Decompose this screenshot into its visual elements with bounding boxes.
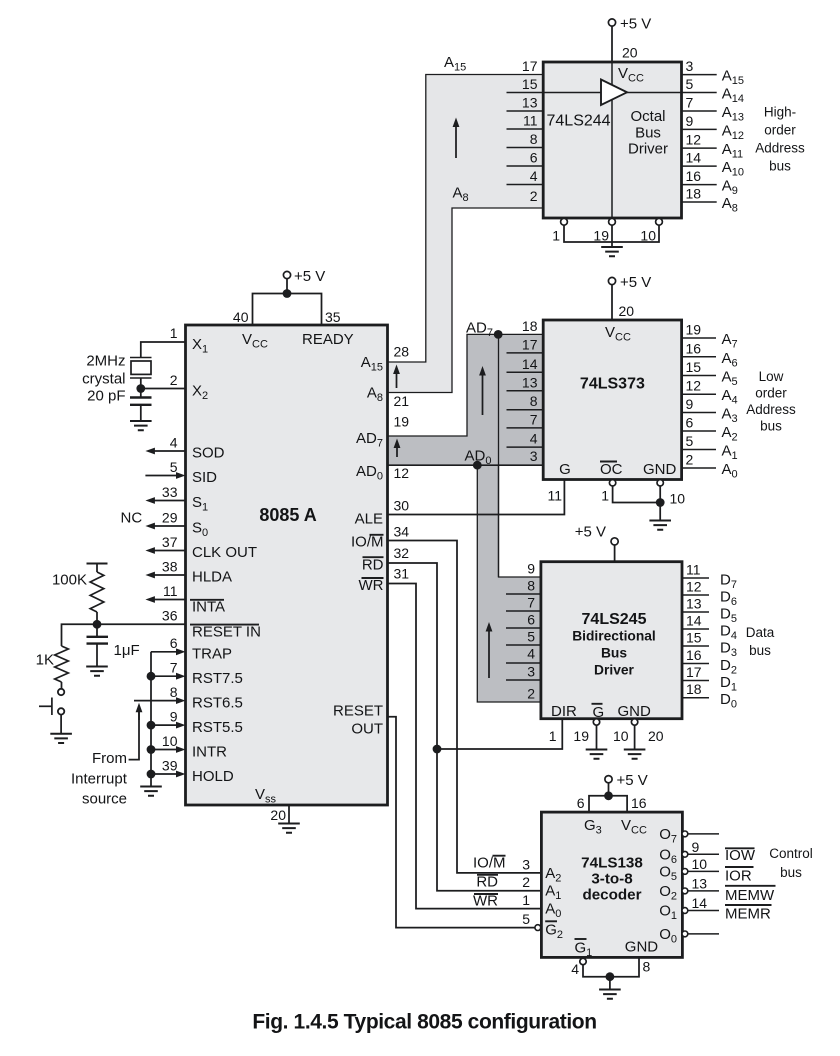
pin A15 (28) of 8085 (361, 344, 410, 374)
svg-text:8: 8 (643, 959, 651, 975)
node OC/GND junction dot (656, 498, 665, 507)
pin INTR (10) of 8085 (151, 733, 227, 761)
svg-text:2MHz: 2MHz (86, 353, 125, 370)
node RESET IN junction dot (93, 620, 102, 629)
svg-text:6: 6 (686, 415, 694, 431)
caption Fig. 1.4.5 Typical 8085 configuration (252, 1011, 596, 1034)
pin VSS (20) of 8085 with ground (255, 786, 289, 824)
svg-text:WR: WR (473, 893, 498, 910)
svg-text:10: 10 (162, 733, 178, 749)
pin S1 (33) of 8085 (145, 484, 208, 514)
svg-text:10: 10 (670, 491, 686, 507)
pin G (19) of 74LS245 to ground (573, 704, 604, 750)
ground below 74LS373 (649, 521, 671, 530)
svg-text:9: 9 (692, 839, 700, 855)
power +5 V terminal for 8085 VCC/READY (253, 268, 326, 325)
svg-text:3: 3 (530, 448, 538, 464)
svg-text:order: order (755, 386, 787, 401)
svg-text:4: 4 (527, 646, 535, 662)
ground below interrupt rail (140, 787, 162, 796)
ground below 74LS244 (601, 247, 623, 256)
label NC (121, 510, 143, 527)
svg-text:74LS244: 74LS244 (547, 113, 611, 130)
svg-text:SID: SID (192, 469, 217, 486)
svg-text:RD: RD (476, 873, 498, 890)
IC U4 74LS245 bidirectional bus driver body (541, 562, 682, 719)
svg-text:From: From (92, 750, 127, 767)
svg-text:9: 9 (686, 396, 694, 412)
svg-text:RST7.5: RST7.5 (192, 670, 243, 687)
pin WR (31) of 8085 (359, 566, 410, 595)
svg-text:11: 11 (547, 488, 562, 504)
svg-text:Bidirectional: Bidirectional (572, 629, 656, 644)
svg-text:19: 19 (686, 322, 702, 338)
svg-text:OC: OC (600, 461, 623, 478)
label Low order Address bus (746, 369, 796, 434)
label Control bus (769, 846, 813, 880)
svg-text:6: 6 (170, 635, 178, 651)
label 1K (36, 652, 54, 669)
pins right of 74LS245 (11..18) to data bus (682, 562, 737, 711)
wire RD branch to 74LS245 DIR pin 1 (437, 719, 562, 749)
pin A1 (2) of 74LS138 with RD label (476, 873, 561, 902)
svg-text:RST5.5: RST5.5 (192, 719, 243, 736)
svg-text:16: 16 (686, 340, 702, 356)
label 1uF (114, 642, 140, 659)
pins 1,19,10 of 74LS244 to ground (552, 218, 662, 247)
svg-text:74LS373: 74LS373 (580, 376, 645, 393)
resistor 1K (55, 624, 97, 688)
svg-text:7: 7 (527, 595, 535, 611)
pin GND (10) of 74LS373 to ground (643, 461, 685, 521)
wire from-interrupt-source arrow into RST6.5 (129, 703, 143, 760)
svg-text:order: order (764, 123, 796, 138)
svg-text:1K: 1K (36, 652, 54, 669)
pin G1 (4) of 74LS138 (571, 939, 639, 977)
svg-text:17: 17 (522, 58, 538, 74)
power +5 V terminal for 74LS138 (G3 pin6, VCC pin16) (577, 772, 648, 812)
ground below 74LS245 pin 10 (624, 750, 646, 759)
label VCC inside 74LS138 (621, 817, 647, 837)
label IOR control signal (725, 867, 754, 885)
svg-text:36: 36 (162, 608, 178, 624)
ground below push-button (50, 734, 72, 743)
svg-text:RESET: RESET (333, 703, 383, 720)
svg-text:8: 8 (527, 578, 535, 594)
svg-text:34: 34 (394, 524, 410, 540)
ground below 74LS138 (599, 990, 621, 999)
svg-text:bus: bus (760, 419, 782, 434)
svg-text:2: 2 (522, 874, 530, 890)
push-button switch to ground (39, 689, 64, 734)
svg-text:IO/M: IO/M (473, 854, 506, 871)
svg-text:33: 33 (162, 484, 178, 500)
bus A8-A15 band pin stub lines into 74LS244 (507, 93, 544, 185)
node crystal/X2 junction dot (136, 384, 145, 393)
svg-text:IOR: IOR (725, 868, 752, 885)
label VCC inside 8085 (242, 331, 268, 351)
svg-text:18: 18 (686, 681, 702, 697)
svg-text:14: 14 (686, 613, 702, 629)
svg-text:19: 19 (593, 228, 609, 244)
pin TRAP (6) of 8085 (151, 635, 232, 663)
svg-text:12: 12 (394, 465, 410, 481)
svg-text:4: 4 (530, 168, 538, 184)
svg-text:6: 6 (530, 150, 538, 166)
wire IO/M from 8085 pin 34 to 74LS138 A2 (388, 541, 542, 873)
svg-text:Interrupt: Interrupt (71, 771, 128, 788)
svg-text:20: 20 (619, 303, 635, 319)
ground below 8085 VSS (278, 824, 300, 833)
node rail dot at INTR (147, 745, 156, 754)
svg-text:NC: NC (121, 510, 143, 527)
capacitor 1uF on RESET IN (87, 624, 109, 666)
svg-text:5: 5 (686, 433, 694, 449)
svg-text:READY: READY (302, 331, 354, 348)
capacitor 20 pF (130, 389, 152, 422)
wire RD from 8085 pin 32 to 74LS138 A1 (388, 563, 542, 891)
svg-text:RST6.5: RST6.5 (192, 695, 243, 712)
svg-text:17: 17 (522, 336, 538, 352)
svg-text:8085 A: 8085 A (259, 505, 316, 525)
pin 35 label (8085 READY) (325, 309, 341, 325)
label Data bus (746, 625, 775, 658)
pin AD0 (12) of 8085 (356, 463, 409, 483)
svg-text:5: 5 (527, 629, 535, 645)
node rail dot at HOLD (147, 770, 156, 779)
buffer triangle symbol inside 74LS244 (601, 80, 627, 106)
svg-text:4: 4 (571, 961, 579, 977)
label A15 at band top (444, 54, 466, 74)
svg-text:15: 15 (686, 630, 702, 646)
svg-text:ALE: ALE (355, 510, 383, 527)
bus direction arrow in A8-A15 band (top) (453, 118, 460, 159)
node AD7 junction dot (494, 330, 503, 339)
pin X1 (1) of 8085 with crystal wire (141, 325, 208, 357)
svg-text:7: 7 (170, 660, 178, 676)
ground below 74LS245 pin 19 (586, 750, 608, 759)
svg-text:38: 38 (162, 559, 178, 575)
svg-text:5: 5 (522, 911, 530, 927)
svg-text:12: 12 (686, 132, 702, 148)
svg-text:20 pF: 20 pF (87, 388, 125, 405)
svg-text:3: 3 (527, 664, 535, 680)
svg-text:8: 8 (530, 393, 538, 409)
power +5 V terminal for 74LS373 (608, 274, 651, 320)
label 100K (52, 572, 87, 589)
bus AD0-AD7 multiplexed dark band (8085 to 74LS373 and 74LS245) (388, 334, 544, 702)
svg-text:37: 37 (162, 534, 178, 550)
svg-text:7: 7 (530, 411, 538, 427)
node RD/DIR junction dot (433, 745, 442, 754)
node rail dot at RST5.5 (147, 721, 156, 730)
IC U2 74LS244 octal bus driver body (543, 62, 681, 218)
pin 40 label (8085 VCC) (233, 309, 249, 325)
power +5 V terminal for 74LS245 (575, 524, 618, 562)
IC U5 74LS138 3-to-8 decoder body (541, 812, 682, 957)
label AD0 on dark band (465, 448, 492, 468)
svg-text:+5 V: +5 V (294, 268, 325, 285)
wire AD0 line across dark band to 74LS373 pin 3 (388, 464, 544, 466)
pin G2 (5) of 74LS138 with inverter bubble (522, 911, 563, 941)
svg-text:17: 17 (686, 664, 702, 680)
svg-text:1: 1 (549, 728, 557, 744)
label A8 at band elbow (453, 185, 469, 205)
bus AD band pin stubs into 74LS373 (507, 353, 544, 447)
svg-text:8: 8 (170, 684, 178, 700)
svg-text:INTA: INTA (192, 599, 225, 616)
svg-text:MEMR: MEMR (725, 906, 771, 923)
svg-text:35: 35 (325, 309, 341, 325)
svg-text:OUT: OUT (351, 721, 383, 738)
bus direction arrow near 8085 A15/A8 pins (393, 365, 400, 389)
svg-text:G: G (559, 461, 571, 478)
svg-text:5: 5 (686, 76, 694, 92)
svg-text:+5 V: +5 V (617, 772, 648, 789)
svg-text:100K: 100K (52, 572, 87, 589)
svg-text:2: 2 (530, 188, 538, 204)
svg-text:18: 18 (686, 186, 702, 202)
pin RESET OUT of 8085 (333, 703, 383, 738)
svg-text:28: 28 (394, 344, 410, 360)
svg-text:9: 9 (686, 113, 694, 129)
svg-text:MEMW: MEMW (725, 887, 775, 904)
svg-text:74LS138: 74LS138 (581, 855, 643, 872)
wire RESET OUT from 8085 to 74LS138 G2 pin 5 (388, 717, 535, 928)
svg-text:11: 11 (163, 583, 178, 599)
svg-text:HOLD: HOLD (192, 768, 234, 785)
svg-text:11: 11 (523, 113, 538, 129)
svg-text:bus: bus (769, 159, 791, 174)
svg-text:bus: bus (749, 643, 771, 658)
svg-text:14: 14 (522, 356, 538, 372)
svg-text:4: 4 (530, 431, 538, 447)
pin RST6.5 (8) of 8085 from interrupt source (134, 684, 243, 712)
svg-text:9: 9 (527, 561, 535, 577)
pin SID (5) of 8085 (145, 459, 217, 486)
svg-text:12: 12 (686, 579, 702, 595)
microprocessor U1 8085 A body (186, 325, 388, 805)
svg-text:Driver: Driver (594, 663, 635, 678)
svg-text:39: 39 (162, 758, 178, 774)
svg-text:1: 1 (552, 228, 560, 244)
pin GND (8) of 74LS138 (625, 939, 659, 975)
label MEMR control signal (725, 905, 772, 923)
svg-text:14: 14 (692, 895, 708, 911)
pin HLDA (38) of 8085 (145, 559, 232, 586)
label High-order Address bus (755, 105, 805, 174)
svg-text:SOD: SOD (192, 445, 225, 462)
svg-text:40: 40 (233, 309, 249, 325)
svg-text:15: 15 (522, 76, 538, 92)
svg-text:Driver: Driver (628, 141, 668, 158)
svg-text:2: 2 (527, 686, 535, 702)
svg-text:1: 1 (170, 325, 178, 341)
svg-text:29: 29 (162, 510, 178, 526)
svg-text:14: 14 (686, 150, 702, 166)
svg-text:31: 31 (394, 566, 410, 582)
svg-text:21: 21 (394, 393, 410, 409)
svg-text:HLDA: HLDA (192, 569, 232, 586)
svg-text:20: 20 (270, 807, 286, 823)
ground below 20 pF capacitor (130, 421, 152, 430)
bus AD band pin stubs into 74LS245 (506, 594, 541, 680)
svg-text:2: 2 (686, 452, 694, 468)
pin HOLD (39) of 8085 (151, 758, 234, 786)
svg-text:12: 12 (686, 378, 702, 394)
pin A8 (21) of 8085 (367, 385, 409, 410)
svg-text:WR: WR (359, 577, 384, 594)
pin numbers left of 74LS245 (9,8,7,6,5,4,3,2) (527, 561, 535, 702)
svg-text:6: 6 (527, 612, 535, 628)
svg-text:74LS245: 74LS245 (582, 611, 647, 628)
pin X2 (2) of 8085 (141, 372, 208, 402)
svg-text:13: 13 (522, 95, 538, 111)
svg-text:CLK OUT: CLK OUT (192, 544, 257, 561)
svg-text:32: 32 (394, 545, 410, 561)
svg-text:Bus: Bus (601, 646, 627, 661)
pin OC (1) of 74LS373 (600, 461, 660, 504)
pins right of 74LS244 (3,5,7,9,12,14,16,18) to high-order bus (681, 58, 744, 214)
svg-text:11: 11 (686, 562, 701, 578)
bus direction arrow in AD band toward 74LS373 (479, 366, 486, 415)
pin RST5.5 (9) of 8085 (151, 709, 243, 737)
svg-text:+5 V: +5 V (620, 16, 651, 33)
svg-text:2: 2 (170, 372, 178, 388)
svg-text:crystal: crystal (82, 371, 125, 388)
pin numbers left of 74LS244 (17,15,13,11,8,6,4,2) (522, 58, 538, 204)
pin ALE (30) of 8085 (355, 498, 410, 528)
svg-text:18: 18 (522, 318, 538, 334)
svg-text:TRAP: TRAP (192, 646, 232, 663)
svg-text:16: 16 (686, 168, 702, 184)
pin G (11) of 74LS373 (547, 461, 570, 504)
svg-text:Address: Address (755, 141, 805, 156)
svg-text:19: 19 (394, 414, 410, 430)
pin INTA (11) of 8085 (145, 583, 225, 616)
svg-text:10: 10 (692, 856, 708, 872)
svg-text:16: 16 (631, 795, 647, 811)
pin AD7 (19) of 8085 (356, 414, 409, 450)
svg-text:19: 19 (573, 728, 589, 744)
svg-text:RD: RD (362, 556, 384, 573)
svg-text:Address: Address (746, 402, 796, 417)
node AD0 junction dot (473, 461, 482, 470)
svg-text:15: 15 (686, 359, 702, 375)
svg-text:10: 10 (640, 228, 656, 244)
svg-text:INTR: INTR (192, 744, 227, 761)
crystal Y1 2MHz (130, 358, 152, 389)
svg-text:7: 7 (686, 95, 694, 111)
wire WR from 8085 pin 31 to 74LS138 A0 (388, 584, 542, 909)
svg-text:IO/M: IO/M (351, 534, 384, 551)
label G3 inside 74LS138 (584, 817, 602, 837)
node rail dot at RST7.5 (147, 672, 156, 681)
svg-text:1: 1 (522, 892, 530, 908)
svg-text:4: 4 (170, 435, 178, 451)
svg-text:1μF: 1μF (114, 642, 140, 659)
svg-text:20: 20 (648, 728, 664, 744)
pin A0 (1) of 74LS138 with WR label (473, 892, 561, 920)
svg-text:Fig. 1.4.5 Typical 8085 config: Fig. 1.4.5 Typical 8085 configuration (252, 1011, 596, 1034)
svg-text:GND: GND (643, 461, 677, 478)
svg-text:decoder: decoder (582, 887, 641, 904)
label IOW control signal (725, 847, 756, 864)
svg-text:1: 1 (601, 488, 609, 504)
pin DIR (1) of 74LS245 (549, 703, 577, 744)
svg-text:3: 3 (522, 856, 530, 872)
svg-text:16: 16 (686, 647, 702, 663)
label READY inside 8085 (302, 331, 354, 348)
label 20 pF (87, 388, 125, 405)
svg-text:source: source (82, 791, 127, 808)
power +5 V terminal for 74LS244 (608, 16, 651, 63)
label 2MHz crystal (82, 353, 125, 388)
svg-text:5: 5 (170, 459, 178, 475)
pin IO/M (34) of 8085 (351, 524, 409, 551)
svg-text:GND: GND (625, 939, 659, 956)
svg-text:GND: GND (618, 703, 652, 720)
svg-text:Control: Control (769, 846, 813, 861)
bus direction arrow near 8085 AD7/AD0 pins (394, 439, 401, 458)
svg-text:13: 13 (692, 875, 708, 891)
pin SOD (4) of 8085 (145, 435, 224, 462)
ground below 1uF capacitor (86, 667, 108, 676)
pins O7..O0 of 74LS138 with bubbles (control outputs) (659, 826, 719, 946)
svg-text:8: 8 (530, 131, 538, 147)
svg-text:+5 V: +5 V (575, 524, 606, 541)
svg-text:RESET IN: RESET IN (192, 624, 261, 641)
pin A2 (3) of 74LS138 with IO/M label (473, 854, 561, 884)
pin numbers left of 74LS373 (18,17,14,13,8,7,4,3) (522, 318, 538, 464)
svg-text:+5 V: +5 V (620, 274, 651, 291)
label AD7 on dark band (466, 320, 493, 340)
svg-text:IOW: IOW (725, 847, 756, 864)
pin RD (32) of 8085 (362, 545, 409, 573)
svg-text:30: 30 (394, 498, 410, 514)
label MEMW control signal (725, 886, 776, 904)
svg-text:10: 10 (613, 728, 629, 744)
wire ALE from 8085 pin 30 to 74LS373 pin G-11 (388, 479, 565, 515)
resistor 100K pull-up (87, 564, 108, 625)
pins right of 74LS373 (19,16,15,12,9,6,5,2) to low-order bus (681, 322, 737, 481)
svg-text:Data: Data (746, 625, 775, 640)
pin RESET IN (36) of 8085 (97, 608, 261, 641)
svg-text:13: 13 (522, 374, 538, 390)
bus direction arrow in AD band toward 74LS245 (486, 622, 493, 678)
pin S0 (29) of 8085, NC (145, 510, 208, 540)
wire dark band inner edge (AD7 junction down to 74LS245) (498, 334, 500, 577)
svg-text:3-to-8: 3-to-8 (591, 871, 632, 888)
label From Interrupt source (71, 750, 128, 808)
bus high-order address band A8-A15 (8085 to 74LS244) (388, 75, 544, 393)
svg-text:High-: High- (764, 105, 796, 120)
svg-text:6: 6 (577, 795, 585, 811)
svg-text:Octal: Octal (630, 108, 665, 125)
IC U3 74LS373 latch body (543, 320, 681, 480)
wire interrupt rail (TRAP elbow down to ground) (150, 652, 152, 787)
node G1/GND junction dot to ground (606, 972, 615, 989)
svg-text:13: 13 (686, 596, 702, 612)
svg-text:Bus: Bus (635, 124, 661, 141)
svg-text:9: 9 (170, 709, 178, 725)
svg-text:bus: bus (780, 865, 802, 880)
svg-text:DIR: DIR (551, 703, 577, 720)
svg-text:Low: Low (759, 369, 784, 384)
svg-text:3: 3 (686, 58, 694, 74)
pin RST7.5 (7) of 8085 (151, 660, 243, 688)
svg-text:20: 20 (622, 45, 638, 61)
